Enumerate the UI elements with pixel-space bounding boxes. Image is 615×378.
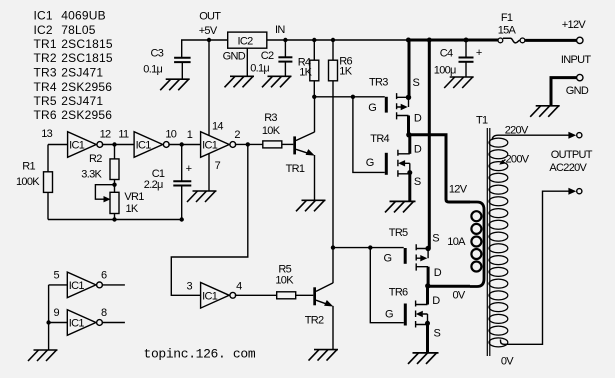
transistor TR3 [385,97,388,113]
svg-text:D: D [432,295,440,307]
wire VR1 leads [114,185,116,220]
svg-text:1K: 1K [126,203,139,215]
node TR5 S [425,246,430,251]
svg-text:2SJ471: 2SJ471 [61,66,103,80]
svg-text:13: 13 [41,128,52,140]
svg-text:78L05: 78L05 [61,23,95,37]
svg-text:IC1: IC1 [34,9,53,23]
wire bottom rail [48,219,182,221]
svg-text:1K: 1K [339,66,352,78]
winding T1 secondary [489,138,508,147]
svg-text:topinc.126. com: topinc.126. com [144,347,256,362]
node TR3 S [406,95,411,100]
terminal out1 [577,133,582,138]
node TR4 S [407,170,412,175]
svg-text:3.3K: 3.3K [81,169,102,181]
node TR4 tap [351,95,355,99]
wire GND input [551,78,577,106]
op-amp IC1 inverter D [201,283,230,309]
ground unused [34,349,58,351]
ground C2 [268,75,292,77]
winding T1 primary [470,202,484,287]
wire TR6 gate loop [370,248,404,323]
arrow out2 [568,188,576,195]
wire TR5 gate [333,247,404,249]
wire TR4 drain [408,135,411,154]
svg-text:100μ: 100μ [434,65,456,77]
svg-text:100K: 100K [16,176,40,188]
svg-text:200V: 200V [506,153,530,165]
node IN [283,38,287,42]
svg-text:0.1μ: 0.1μ [143,63,162,75]
svg-text:R3: R3 [264,112,277,124]
svg-text:S: S [413,77,420,89]
resistor R1 [47,145,49,220]
wire C1 leads [181,145,183,220]
wire R5-TR2 [296,294,314,296]
ground TR1 [302,199,326,201]
svg-text:TR2: TR2 [305,314,324,326]
svg-text:3: 3 [187,281,193,293]
svg-text:10K: 10K [262,125,281,137]
wire C4 leads [465,40,467,77]
svg-text:IC1: IC1 [202,140,218,152]
svg-text:GND: GND [223,51,246,63]
wire +5V rail [182,40,409,58]
svg-text:TR3: TR3 [34,66,57,80]
transistor TR6 [404,304,407,326]
svg-text:4069UB: 4069UB [61,9,106,23]
svg-text:IC1: IC1 [69,280,85,292]
transformer T1 core [487,128,490,356]
wire TR3 drain [407,116,410,135]
svg-text:IC1: IC1 [69,140,85,152]
svg-text:TR5: TR5 [389,227,408,239]
svg-text:VR1: VR1 [124,191,144,203]
node common drain A [406,132,411,137]
op-amp IC1 inverter A [68,132,97,158]
svg-text:7: 7 [215,160,221,172]
svg-text:1K: 1K [299,66,312,78]
wire 4-R5 [235,294,277,296]
svg-text:2SC1815: 2SC1815 [61,51,113,65]
wire +12V rail thick [408,39,498,42]
svg-text:T1: T1 [476,115,488,127]
potentiometer VR1 [110,192,119,213]
svg-text:IC1: IC1 [69,318,85,330]
svg-text:D: D [414,112,422,124]
svg-text:14: 14 [212,120,223,132]
node TR6 tap [368,245,372,249]
node +5V [207,38,211,42]
wire IC2 gnd [246,48,248,76]
wire inv E [49,284,125,286]
node R4-TR1 [312,95,316,99]
wire 2-R3 [235,143,263,145]
terminal GND [577,74,583,80]
svg-text:R1: R1 [22,161,35,173]
node osc A [112,142,116,146]
svg-text:0V: 0V [453,289,466,301]
transistor TR5 [404,248,407,264]
resistor R4 [310,60,319,81]
wire TR6 source [426,325,429,353]
wire pin14 +5V [208,40,210,136]
svg-text:9: 9 [54,307,60,319]
wire TR1 collector [314,97,316,132]
svg-text:C3: C3 [151,48,164,60]
svg-text:S: S [414,176,421,188]
svg-text:G: G [384,252,392,264]
capacitor C4 [459,57,474,59]
svg-text:OUT: OUT [199,11,221,23]
svg-text:IC1: IC1 [202,291,218,303]
svg-text:IN: IN [275,24,285,36]
wire drain B to T1 [428,285,470,288]
wire 12-11 [102,144,134,146]
svg-text:5: 5 [54,270,60,282]
svg-text:IC1: IC1 [136,140,152,152]
svg-text:D: D [434,267,442,279]
svg-text:TR1: TR1 [286,163,305,175]
wire 10-1 [168,144,200,146]
node unused [46,320,50,324]
wire fuse-+12V [525,39,576,42]
svg-text:2SJ471: 2SJ471 [61,94,103,108]
svg-text:TR6: TR6 [389,287,408,299]
wire TR4 source [408,174,411,202]
arrow out1 [568,132,576,139]
wire C2 leads [284,40,286,76]
svg-text:2SC1815: 2SC1815 [61,37,113,51]
wire TR5 drain [427,267,430,286]
wire R4 leads [313,40,315,97]
svg-text:15A: 15A [498,25,517,37]
svg-text:+12V: +12V [562,19,587,31]
node C4 top [464,38,469,43]
regulator IC2 [228,32,267,48]
wire rail S1 [408,40,411,97]
svg-text:0.1μ: 0.1μ [250,63,269,75]
wire TR1 emitter [314,155,316,200]
node TR5 gate [331,245,335,249]
node TR6 S [425,321,430,326]
node rail2 [427,38,432,43]
svg-text:C4: C4 [440,48,453,60]
node osc B [180,142,184,146]
wire inv F [49,322,125,324]
op-amp IC1 inverter C [201,132,230,158]
svg-text:F1: F1 [501,12,513,24]
svg-text:TR2: TR2 [34,51,57,65]
fuse F1 [498,38,503,43]
svg-text:GND: GND [566,85,589,97]
svg-text:IC2: IC2 [238,35,254,47]
wire TR6 drain [426,286,429,305]
svg-text:S: S [432,233,439,245]
svg-text:OUTPUT: OUTPUT [551,149,593,161]
wire pin13 [48,144,68,146]
ground C3 [166,78,190,80]
svg-text:TR6: TR6 [34,108,57,122]
wire R6 leads [332,40,334,248]
capacitor C1 [173,180,191,182]
capacitor C2 [278,56,292,58]
transistor TR4 [385,153,388,175]
wire TR2 collector [332,248,334,284]
node VR1 bottom [112,217,116,221]
wire rail S2 [428,40,431,249]
wire pin7 gnd [208,153,210,191]
capacitor C3 [174,57,191,59]
svg-text:TR5: TR5 [34,94,57,108]
svg-text:2SK2956: 2SK2956 [61,108,112,122]
svg-text:S: S [434,327,441,339]
op-amp IC1 inverter E [67,272,96,298]
wire unused gnd [48,285,50,350]
terminal out2 [577,189,582,194]
svg-text:8: 8 [101,307,107,319]
svg-text:AC220V: AC220V [549,162,587,174]
svg-text:2SK2956: 2SK2956 [61,80,112,94]
svg-text:220V: 220V [505,124,529,136]
svg-text:TR1: TR1 [34,37,57,51]
wire 220V out [492,135,569,140]
svg-text:11: 11 [118,128,129,140]
resistor R3 [263,141,282,148]
svg-text:TR4: TR4 [370,133,389,145]
svg-text:G: G [366,157,374,169]
node rail1 [406,38,411,43]
op-amp IC1 inverter B [134,132,163,158]
wire TR2 emitter [332,306,334,350]
svg-text:G: G [385,309,393,321]
svg-text:2: 2 [234,129,240,141]
wire feedback [171,144,248,295]
svg-text:R2: R2 [89,153,102,165]
svg-text:12: 12 [100,128,111,140]
svg-text:1: 1 [187,129,193,141]
svg-text:IC2: IC2 [34,23,53,37]
wire TR3 gate [314,96,385,98]
ground C4 [450,76,474,78]
resistor R2 [110,159,119,180]
node C1 bottom [180,217,184,221]
svg-text:12V: 12V [449,184,468,196]
resistor R5 [277,292,296,299]
svg-text:4: 4 [236,281,242,293]
transistor TR1 [293,136,296,154]
svg-text:G: G [368,102,376,114]
svg-text:10A: 10A [447,236,466,248]
ground TR4 [390,200,416,202]
terminal +12V [577,37,583,43]
svg-text:0V: 0V [501,356,514,368]
node common drain B [425,283,430,288]
svg-text:10: 10 [165,128,176,140]
wire out2 [501,191,570,344]
svg-text:6: 6 [101,270,107,282]
svg-text:+5V: +5V [199,25,218,37]
ground input [536,105,560,107]
node R2-VR1 [112,183,116,187]
svg-text:D: D [414,144,422,156]
svg-text:C2: C2 [261,50,274,62]
ground TR6 [413,352,439,354]
ground IC2 [230,75,254,77]
wire R2 leads [114,145,116,185]
wire drain A to T1 [409,135,470,202]
svg-text:2.2μ: 2.2μ [144,179,163,191]
ground TR2 [314,349,338,351]
ground pin7 [193,190,217,192]
node R4 top [312,38,316,42]
transistor TR2 [313,287,316,305]
svg-text:10K: 10K [275,275,294,287]
svg-text:TR4: TR4 [34,80,57,94]
op-amp IC1 inverter F [67,310,96,336]
resistor R6 [329,60,338,81]
wire R3-TR1 [282,143,294,145]
svg-text:INPUT: INPUT [561,54,591,66]
svg-text:+: + [476,47,482,59]
node R6 top [331,38,335,42]
svg-text:TR3: TR3 [369,77,388,89]
wire TR4 gate loop [353,97,385,173]
svg-text:+: + [186,163,192,175]
node pin2 [246,142,250,146]
